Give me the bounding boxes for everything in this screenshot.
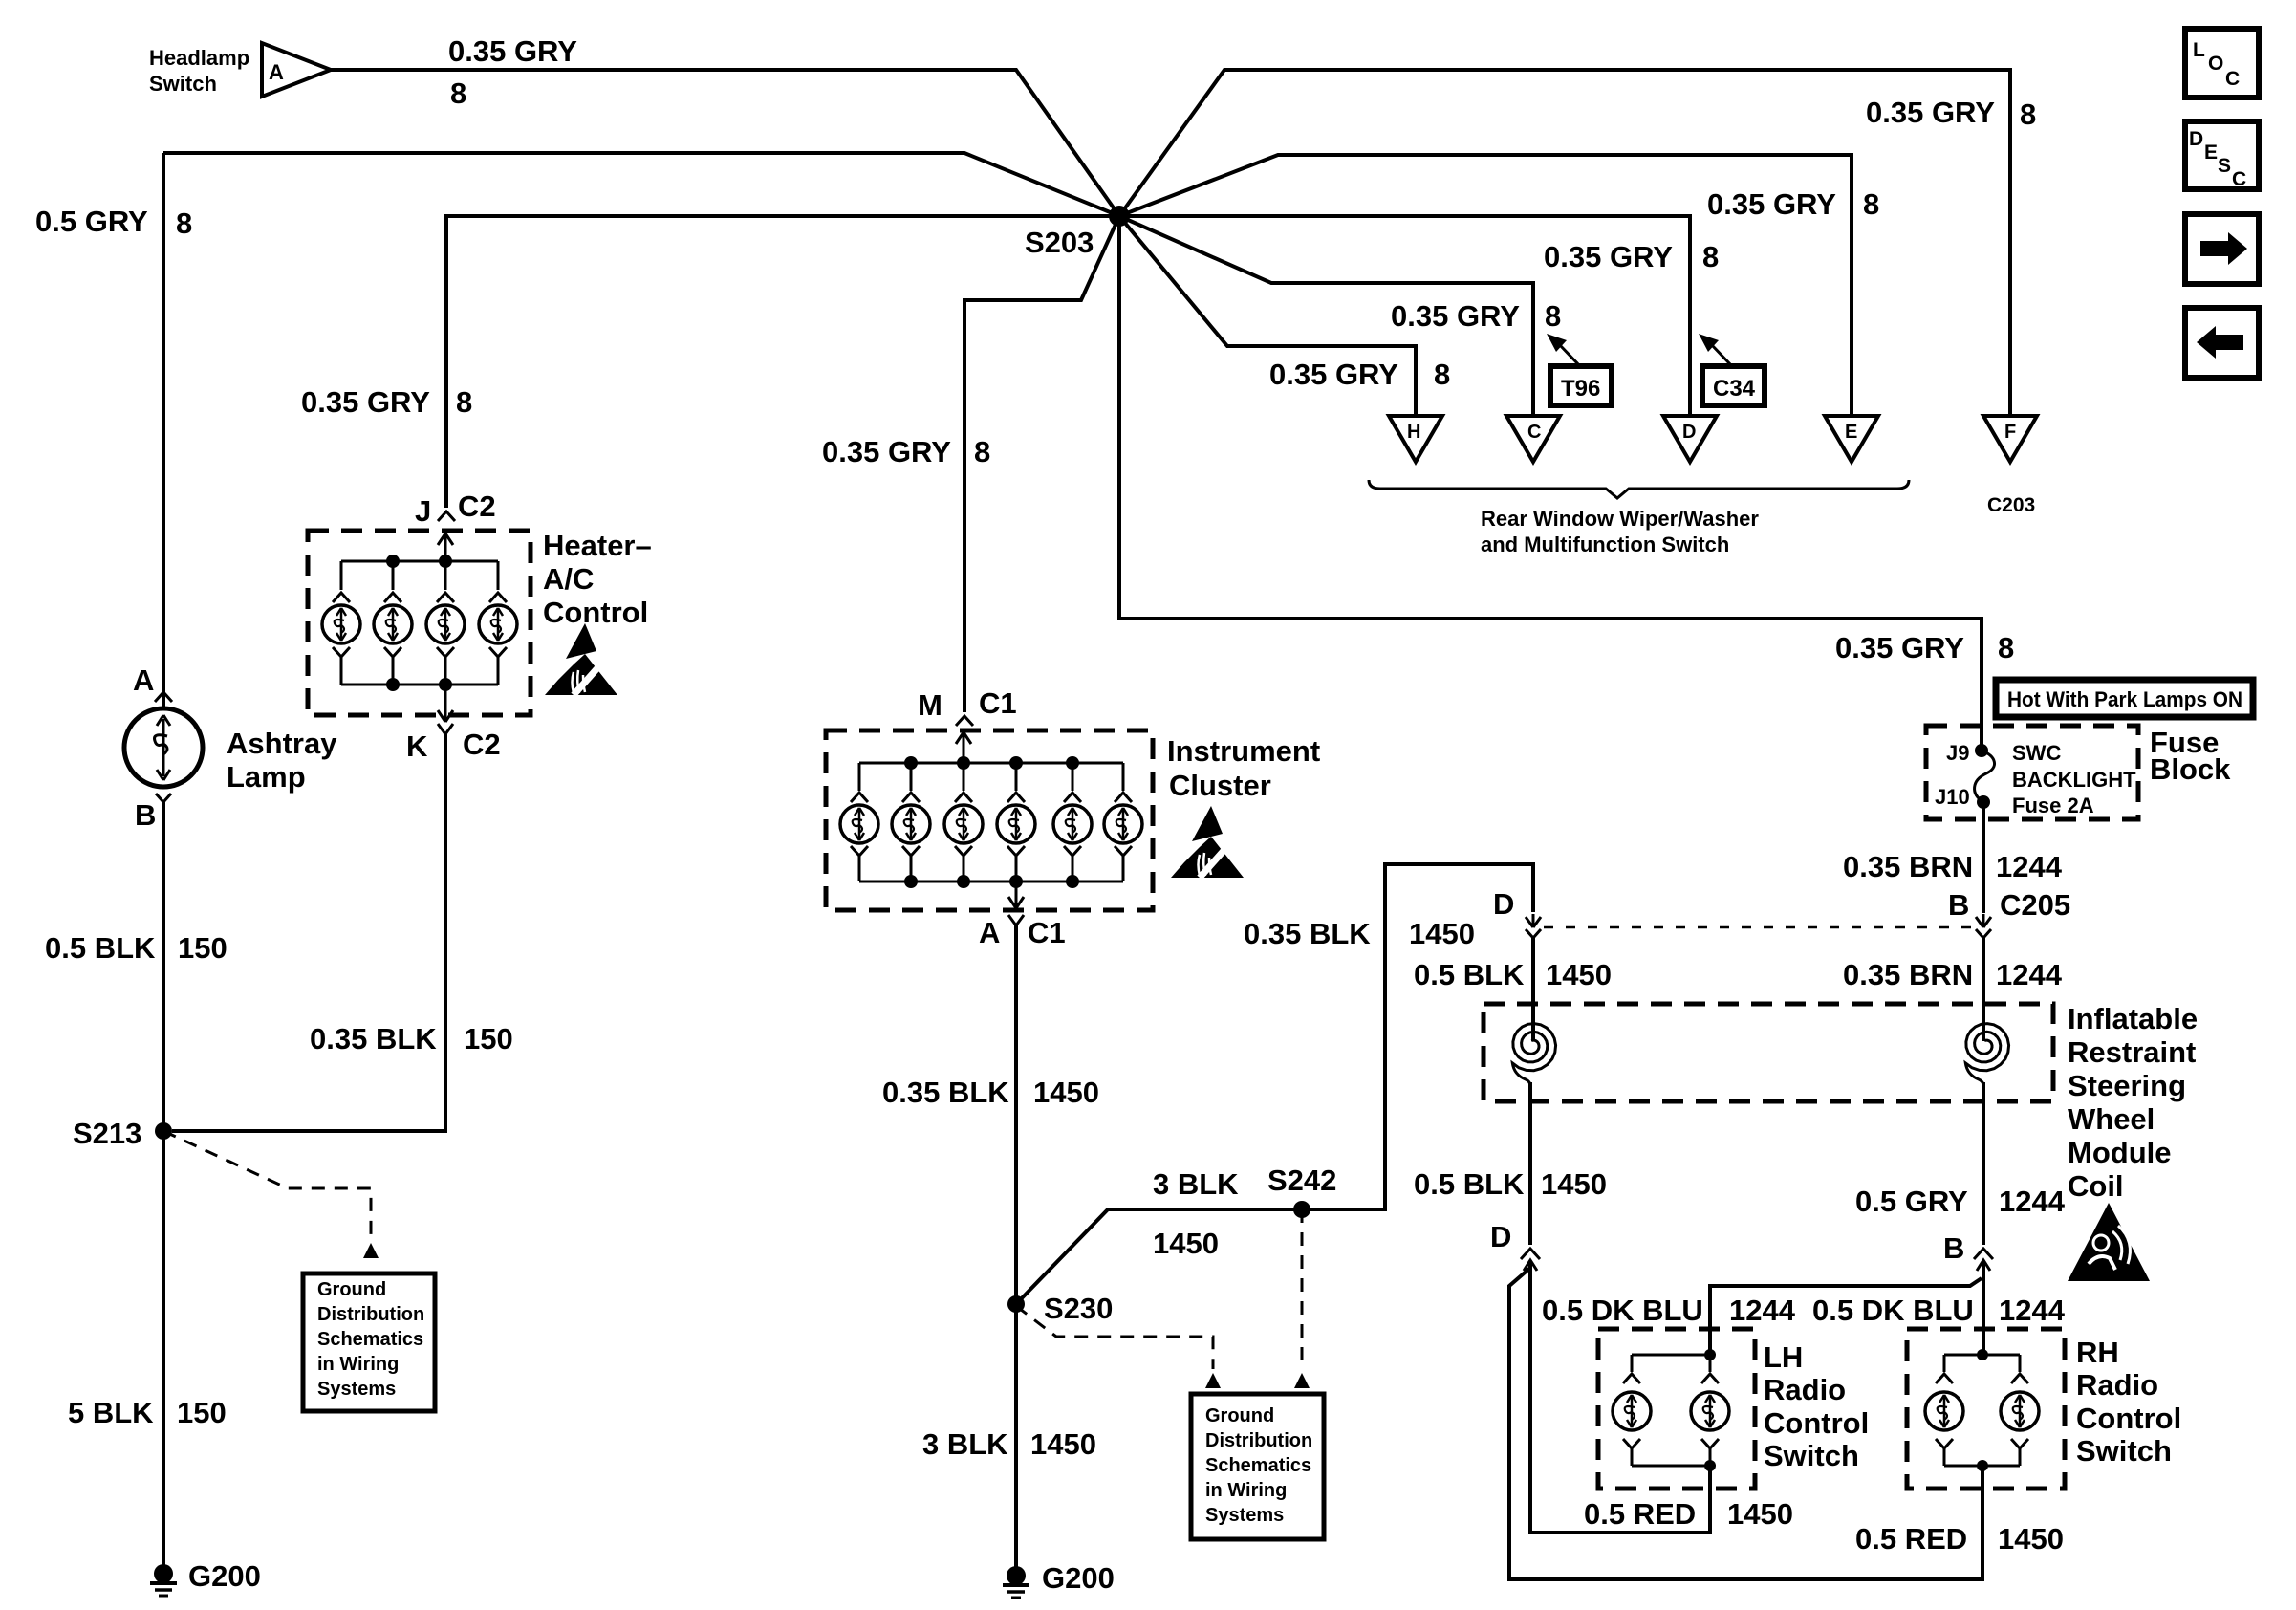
splice S203 [1109, 206, 1130, 227]
wire 0.35 GRY 8 : S203 to connector E [1119, 155, 1852, 416]
svg-text:A: A [269, 60, 284, 84]
bulb cluster 2 [892, 805, 930, 843]
svg-text:150: 150 [178, 931, 227, 965]
svg-text:1450: 1450 [1727, 1497, 1793, 1531]
coil spiral (left leg) [1531, 1019, 1535, 1041]
DESC box [2185, 121, 2259, 189]
svg-text:Inflatable: Inflatable [2068, 1002, 2198, 1035]
svg-text:8: 8 [1702, 240, 1719, 273]
Heater A/C Control dashed box [308, 531, 531, 715]
svg-text:0.5 BLK: 0.5 BLK [45, 931, 156, 965]
svg-text:C1: C1 [1028, 916, 1066, 949]
svg-text:H: H [1407, 422, 1420, 443]
svg-text:0.35 BRN: 0.35 BRN [1843, 958, 1973, 991]
svg-text:0.35 GRY: 0.35 GRY [1391, 299, 1520, 333]
svg-text:0.5 DK BLU: 0.5 DK BLU [1812, 1294, 1974, 1327]
wire 0.35 GRY 8 : S203 down-left to instrument cluster M [964, 216, 1119, 712]
svg-text:Systems: Systems [317, 1379, 396, 1400]
svg-text:1244: 1244 [1996, 850, 2063, 883]
svg-text:1450: 1450 [1033, 1076, 1099, 1109]
svg-text:O: O [2208, 53, 2223, 75]
svg-text:C34: C34 [1713, 376, 1756, 402]
svg-text:0.35 GRY: 0.35 GRY [448, 34, 577, 68]
svg-text:S242: S242 [1267, 1164, 1336, 1197]
svg-text:8: 8 [2020, 98, 2036, 131]
svg-text:1450: 1450 [1409, 917, 1475, 950]
svg-text:E: E [1845, 422, 1857, 443]
svg-text:0.35 GRY: 0.35 GRY [1269, 358, 1398, 391]
svg-text:D: D [2189, 128, 2203, 150]
ground G200 (left) [154, 1564, 173, 1583]
svg-text:Hot With Park Lamps ON: Hot With Park Lamps ON [2007, 687, 2242, 711]
svg-text:G200: G200 [1042, 1561, 1115, 1595]
wire 0.5 BLK 1450 : coil left leg down to connector D [1528, 1082, 1532, 1245]
bulb cluster 3 [944, 805, 983, 843]
svg-text:1450: 1450 [1998, 1522, 2064, 1556]
svg-text:Schematics: Schematics [317, 1329, 423, 1350]
ground G200 (center) [1007, 1566, 1026, 1585]
wire 0.35 GRY 8 : S203 left along y=226 then down to heater [446, 216, 1119, 508]
dashed reference from S213 to ground distribution box [163, 1131, 371, 1241]
svg-text:8: 8 [1998, 631, 2014, 664]
svg-text:K: K [406, 729, 428, 763]
svg-text:150: 150 [177, 1396, 227, 1429]
svg-text:Ashtray: Ashtray [227, 727, 337, 760]
connector triangle E [1825, 416, 1878, 462]
C205 in-line connector dashed line [1544, 926, 1971, 929]
svg-text:Distribution: Distribution [1205, 1430, 1312, 1451]
wire 0.5 GRY 8 : S203 to left trunk corner [163, 153, 1119, 216]
bulb RH 2 [2001, 1392, 2039, 1430]
wire 0.5 GRY 1244 : coil right leg down to connector B [1982, 1082, 1985, 1245]
RH switch internal bottom bus [1944, 1465, 2020, 1468]
svg-text:B: B [1943, 1231, 1964, 1265]
svg-text:150: 150 [464, 1022, 513, 1055]
svg-text:in Wiring: in Wiring [1205, 1480, 1287, 1501]
LH switch internal top bus [1632, 1354, 1710, 1357]
svg-text:0.5 RED: 0.5 RED [1855, 1522, 1967, 1556]
RH Radio Control Switch dashed box [1907, 1329, 2065, 1489]
svg-text:Module: Module [2068, 1136, 2172, 1169]
connector triangle C [1506, 416, 1560, 462]
wire 0.35 GRY 8 : S203 to connector F [1119, 70, 2010, 416]
wire 0.35 GRY 8 : S203 to connector D [1119, 216, 1690, 416]
splice S242 [1293, 1201, 1310, 1218]
bulb cluster 5 [1053, 805, 1092, 843]
wire 0.5 RED 1450 : D down then to LH switch bottom [1530, 1262, 1710, 1533]
bulb RH 1 [1925, 1392, 1963, 1430]
svg-text:3 BLK: 3 BLK [922, 1427, 1008, 1461]
brace under connectors [1369, 480, 1909, 498]
cluster bottom bus [859, 881, 1123, 883]
svg-text:Distribution: Distribution [317, 1304, 424, 1325]
svg-text:0.35 GRY: 0.35 GRY [1835, 631, 1964, 664]
cluster top bus [859, 762, 1123, 765]
dashed reference from S230 to ground distribution box [1016, 1306, 1213, 1369]
svg-text:C203: C203 [1987, 494, 2035, 516]
svg-text:Control: Control [1764, 1406, 1869, 1440]
bulb heater 4 [479, 605, 517, 643]
C34 takeout box with arrow [1702, 366, 1765, 405]
heater exit arrow [444, 685, 447, 720]
svg-text:J10: J10 [1935, 785, 1970, 809]
svg-text:S203: S203 [1025, 226, 1094, 259]
RH switch internal top bus [1944, 1354, 2020, 1357]
svg-text:1450: 1450 [1153, 1227, 1219, 1260]
LH switch internal bottom bus [1632, 1465, 1710, 1468]
SWC BACKLIGHT Fuse 2A [1975, 751, 1995, 802]
svg-text:0.5 GRY: 0.5 GRY [35, 205, 148, 238]
svg-text:0.35 BRN: 0.35 BRN [1843, 850, 1973, 883]
svg-text:BACKLIGHT: BACKLIGHT [2012, 768, 2136, 792]
svg-text:8: 8 [176, 207, 192, 240]
svg-text:1450: 1450 [1030, 1427, 1096, 1461]
svg-text:Restraint: Restraint [2068, 1035, 2196, 1069]
svg-text:Rear Window Wiper/Washer: Rear Window Wiper/Washer [1481, 507, 1759, 531]
LH Radio Control Switch dashed box [1598, 1329, 1755, 1489]
svg-text:0.5 RED: 0.5 RED [1584, 1497, 1696, 1531]
svg-text:1244: 1244 [1999, 1185, 2066, 1218]
LOC box [2185, 29, 2259, 98]
heater internal wiring: entry arrow [444, 535, 447, 561]
connector triangle A (headlamp switch) [262, 43, 331, 97]
svg-text:8: 8 [1434, 358, 1450, 391]
svg-text:Switch: Switch [2076, 1434, 2172, 1468]
bulb heater 2 [374, 605, 412, 643]
wire 0.35 BLK 150 : heater K down, left to S213 [172, 734, 445, 1131]
svg-text:Ground: Ground [317, 1279, 386, 1300]
bulb heater 3 [426, 605, 465, 643]
svg-text:D: D [1493, 887, 1514, 921]
svg-text:F: F [2004, 422, 2016, 443]
svg-text:8: 8 [450, 76, 466, 110]
svg-text:D: D [1682, 422, 1696, 443]
svg-text:1450: 1450 [1541, 1167, 1607, 1201]
svg-text:1244: 1244 [1996, 958, 2063, 991]
svg-text:5 BLK: 5 BLK [68, 1396, 154, 1429]
forward arrow box [2185, 214, 2259, 284]
svg-text:D: D [1490, 1220, 1511, 1253]
svg-text:C: C [1527, 422, 1541, 443]
svg-text:C2: C2 [458, 490, 496, 523]
heater lamp columns [322, 561, 517, 685]
svg-text:T96: T96 [1561, 376, 1600, 402]
svg-text:Coil: Coil [2068, 1169, 2124, 1203]
connector triangle H [1389, 416, 1442, 462]
splice S230 [1007, 1295, 1025, 1313]
svg-text:8: 8 [1863, 187, 1879, 221]
svg-text:8: 8 [1545, 299, 1561, 333]
cluster exit arrow [1015, 881, 1018, 906]
connector A C1 [1008, 915, 1024, 925]
svg-text:C: C [2225, 68, 2240, 90]
svg-text:A/C: A/C [543, 562, 594, 596]
svg-text:0.5 BLK: 0.5 BLK [1414, 1167, 1525, 1201]
bulb LH 2 [1691, 1392, 1729, 1430]
bulb heater 1 [322, 605, 360, 643]
svg-text:0.35 GRY: 0.35 GRY [301, 385, 430, 419]
svg-text:Instrument: Instrument [1167, 734, 1320, 768]
bulb cluster 6 [1104, 805, 1142, 843]
svg-text:Wheel: Wheel [2068, 1102, 2155, 1136]
wire 0.5 BLK 150 : ashtray lamp B down to S213 [162, 802, 165, 1131]
svg-text:C: C [2232, 168, 2246, 190]
connector triangle D [1663, 416, 1717, 462]
connector pin B (ashtray lamp) [156, 794, 171, 802]
connector triangle F [1983, 416, 2037, 462]
svg-text:0.35 GRY: 0.35 GRY [822, 435, 951, 468]
wire 5 BLK 150 : S213 down to G200 [162, 1131, 165, 1565]
svg-text:C2: C2 [463, 728, 501, 761]
Instrument Cluster dashed box [826, 730, 1153, 910]
bulb cluster 1 [840, 805, 878, 843]
Ground Distribution box (left) [303, 1273, 435, 1411]
svg-text:S213: S213 [73, 1117, 141, 1150]
Inflatable Restraint Steering Wheel Module Coil dashed box [1484, 1004, 2053, 1101]
svg-text:Block: Block [2150, 752, 2231, 786]
svg-text:C205: C205 [2000, 888, 2070, 922]
svg-text:LH: LH [1764, 1340, 1803, 1374]
svg-text:and Multifunction Switch: and Multifunction Switch [1481, 533, 1729, 556]
bulb cluster 4 [997, 805, 1035, 843]
svg-text:0.35 BLK: 0.35 BLK [882, 1076, 1009, 1109]
svg-text:Heater–: Heater– [543, 529, 652, 562]
wire 0.35 GRY 8 : S203 to connector C [1119, 216, 1533, 416]
svg-text:1244: 1244 [1999, 1294, 2066, 1327]
svg-text:Switch: Switch [1764, 1439, 1859, 1472]
wire 0.5 DK BLU 1244 : B down to RH switch and branch to LH switch [1982, 1262, 1985, 1355]
svg-text:Systems: Systems [1205, 1505, 1284, 1526]
heater internal bottom bus [341, 684, 498, 686]
back arrow box [2185, 308, 2259, 378]
wire 3 BLK 1450 : S230 diagonal to S242 then right and up [1016, 864, 1533, 1304]
svg-text:0.5 BLK: 0.5 BLK [1414, 958, 1525, 991]
svg-text:M: M [918, 688, 942, 722]
svg-text:B: B [1948, 888, 1969, 922]
cluster lamp columns [840, 763, 1142, 881]
wire 0.35 BLK 1450 : cluster A down to S230 [1014, 925, 1018, 1303]
svg-text:C1: C1 [979, 686, 1017, 720]
svg-text:Lamp: Lamp [227, 760, 306, 794]
svg-text:0.35 GRY: 0.35 GRY [1544, 240, 1673, 273]
wire 0.35 BRN 1244 : fuse to connector B C205 [1982, 802, 1985, 913]
T96 takeout box with arrow [1550, 366, 1612, 405]
splice S213 [155, 1122, 172, 1140]
svg-text:B: B [135, 798, 156, 832]
svg-text:SWC: SWC [2012, 741, 2061, 765]
bulb LH 1 [1613, 1392, 1651, 1430]
svg-text:S: S [2218, 155, 2231, 177]
svg-text:Control: Control [543, 596, 648, 629]
svg-text:A: A [979, 916, 1000, 949]
svg-text:Radio: Radio [1764, 1373, 1846, 1406]
svg-text:1244: 1244 [1729, 1294, 1796, 1327]
wire 0.5 RED 1450 : D branch down then to RH switch bottom [1509, 1268, 1982, 1579]
ESD symbol (heater) [545, 623, 617, 695]
wire 0.35 BRN 1244 : C205 B to coil [1982, 938, 1985, 1019]
Hot With Park Lamps ON box [1996, 680, 2253, 717]
heater internal top bus [341, 560, 498, 563]
ashtray lamp [124, 708, 203, 787]
svg-text:S230: S230 [1044, 1292, 1113, 1325]
svg-text:in Wiring: in Wiring [317, 1354, 399, 1375]
svg-text:RH: RH [2076, 1336, 2119, 1369]
svg-text:0.35 BLK: 0.35 BLK [310, 1022, 437, 1055]
svg-text:0.35 GRY: 0.35 GRY [1707, 187, 1836, 221]
connector K C2 [438, 724, 453, 734]
svg-text:8: 8 [974, 435, 990, 468]
svg-text:0.5 GRY: 0.5 GRY [1855, 1185, 1968, 1218]
svg-text:Schematics: Schematics [1205, 1455, 1311, 1476]
svg-text:Radio: Radio [2076, 1368, 2158, 1402]
svg-text:Control: Control [2076, 1402, 2181, 1435]
svg-text:A: A [133, 664, 154, 697]
svg-text:3 BLK: 3 BLK [1153, 1167, 1239, 1201]
coil spiral (right leg) [1982, 1019, 1985, 1041]
wire 0.35 GRY 8 : S203 to connector H [1119, 216, 1416, 416]
svg-text:1450: 1450 [1546, 958, 1612, 991]
wire 0.5 BLK 1450 : C205 D to coil [1531, 938, 1535, 1019]
svg-text:Cluster: Cluster [1169, 769, 1271, 802]
SRS airbag warning triangle [2068, 1203, 2150, 1281]
wire 0.35 GRY 8 from headlamp switch A to S203 [331, 70, 1119, 216]
wire 0.35 GRY 8 : S203 down then right to fuse block [1119, 216, 1982, 751]
wire 0.5 GRY vertical trunk down to ashtray lamp [162, 153, 165, 709]
Fuse Block dashed box [1926, 726, 2138, 819]
svg-text:0.35 BLK: 0.35 BLK [1244, 917, 1371, 950]
svg-text:L: L [2193, 39, 2205, 61]
svg-text:Fuse 2A: Fuse 2A [2012, 794, 2094, 817]
svg-text:Headlamp: Headlamp [149, 46, 249, 70]
dashed reference from S242 to ground distribution box [1301, 1209, 1304, 1369]
svg-text:0.5 DK BLU: 0.5 DK BLU [1542, 1294, 1703, 1327]
Ground Distribution box (center) [1191, 1394, 1324, 1539]
svg-text:G200: G200 [188, 1559, 261, 1593]
svg-text:E: E [2204, 141, 2218, 163]
wire 3 BLK 1450 : S230 down to G200 [1014, 1304, 1018, 1567]
ESD symbol (cluster) [1171, 806, 1244, 878]
svg-text:Steering: Steering [2068, 1069, 2186, 1102]
svg-text:Switch: Switch [149, 72, 217, 96]
svg-text:8: 8 [456, 385, 472, 419]
cluster entry arrow [963, 734, 965, 763]
svg-text:Ground: Ground [1205, 1405, 1274, 1426]
svg-text:0.35 GRY: 0.35 GRY [1866, 96, 1995, 129]
svg-text:J: J [415, 494, 431, 528]
svg-text:J9: J9 [1946, 741, 1969, 765]
